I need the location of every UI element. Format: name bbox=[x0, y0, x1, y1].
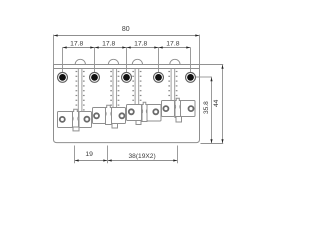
saddle 3 spool bbox=[142, 102, 147, 121]
saddle 3 height screw left bbox=[129, 109, 134, 114]
saddle 1 left block bbox=[58, 112, 73, 128]
bridge base plate bbox=[54, 65, 200, 143]
saddle 1 foot bbox=[73, 127, 79, 131]
saddle 2 foot bbox=[112, 124, 118, 129]
intonation screw shaft string 1 bbox=[78, 69, 82, 113]
svg-text:17.8: 17.8 bbox=[134, 41, 147, 48]
dimension 19 extension left bbox=[74, 146, 76, 164]
saddle 1 height screw right bbox=[84, 117, 89, 122]
saddle 2 left block bbox=[93, 108, 106, 124]
dimension 44 line bbox=[221, 65, 223, 144]
dimension 80 label bbox=[122, 26, 130, 33]
mounting hole 3 bbox=[122, 72, 132, 82]
spring coils string 1 bbox=[76, 71, 85, 111]
svg-text:17.8: 17.8 bbox=[102, 41, 115, 48]
saddle 4 height screw left bbox=[163, 106, 168, 111]
dimension 19 and 38 line bbox=[75, 159, 178, 161]
dimension 17.8 label 2 bbox=[102, 41, 115, 48]
dimension 17.8 label 3 bbox=[134, 41, 147, 48]
screw head bump 1 bbox=[75, 59, 85, 64]
intonation screw shaft string 4 bbox=[171, 69, 175, 102]
saddle 3 height screw right bbox=[153, 109, 158, 114]
extension line hole 1 bbox=[62, 48, 64, 73]
screw head bump 3 bbox=[132, 59, 142, 64]
saddle 3 right block bbox=[147, 105, 161, 122]
spring coils string 4 bbox=[168, 71, 177, 96]
saddle 3 foot bbox=[136, 120, 141, 125]
dimension 38(19X2) label bbox=[129, 153, 156, 160]
mounting hole 2 bbox=[90, 72, 100, 82]
saddle 1 height screw left bbox=[60, 117, 65, 122]
extension line hole 5 bbox=[190, 48, 192, 73]
svg-text:17.8: 17.8 bbox=[70, 41, 83, 48]
screw head bump 2 bbox=[108, 59, 118, 64]
extension line hole 3 bbox=[126, 48, 128, 73]
svg-text:17.8: 17.8 bbox=[166, 41, 179, 48]
saddle 4 foot bbox=[176, 117, 182, 123]
intonation screw shaft string 2 bbox=[113, 69, 117, 109]
dimension 17.8 line bbox=[63, 46, 191, 48]
dimension 44 extension top bbox=[200, 64, 224, 66]
saddle 4 right block bbox=[181, 101, 196, 117]
dimension 44 label bbox=[213, 99, 220, 107]
dimension 35.8 label bbox=[203, 101, 210, 114]
intonation screw shaft string 3 bbox=[135, 69, 139, 106]
spring coils string 2 bbox=[110, 71, 119, 106]
screw head bump 4 bbox=[170, 59, 180, 64]
extension line hole 2 bbox=[94, 48, 96, 73]
svg-text:80: 80 bbox=[122, 26, 130, 33]
dimension 35.8 extension line bbox=[196, 76, 212, 78]
svg-text:44: 44 bbox=[213, 99, 220, 107]
dimension 80 extension right bbox=[199, 35, 201, 65]
mounting hole 4 bbox=[154, 72, 164, 82]
svg-text:38(19X2): 38(19X2) bbox=[129, 153, 156, 160]
dimension 35.8 line bbox=[210, 77, 212, 144]
svg-text:19: 19 bbox=[85, 151, 93, 158]
saddle 4 spool bbox=[175, 98, 181, 117]
saddle 2 right block bbox=[112, 108, 126, 124]
mounting hole 1 bbox=[58, 72, 68, 82]
saddle 1 right block bbox=[79, 112, 92, 128]
dimension 19 label bbox=[85, 151, 93, 158]
dimension 38 extension right bbox=[177, 146, 179, 164]
dimension 80 extension left bbox=[53, 35, 55, 65]
saddle 2 spool bbox=[106, 105, 112, 124]
saddle 2 height screw left bbox=[94, 113, 99, 118]
dimension 80 line bbox=[54, 34, 200, 36]
dimension 17.8 label 1 bbox=[70, 41, 83, 48]
mounting hole 5 bbox=[186, 72, 196, 82]
saddle 2 height screw right bbox=[119, 113, 124, 118]
dimension 44 extension bottom bbox=[201, 143, 224, 145]
back wall bend line bbox=[54, 68, 200, 70]
dimension 19-38 extension middle bbox=[107, 146, 109, 164]
saddle 1 spool bbox=[73, 109, 79, 127]
extension line hole 4 bbox=[158, 48, 160, 73]
saddle 3 left block bbox=[127, 105, 142, 121]
spring coils string 3 bbox=[132, 71, 141, 101]
dimension 17.8 label 4 bbox=[166, 41, 179, 48]
svg-text:35.8: 35.8 bbox=[203, 101, 210, 114]
saddle 4 height screw right bbox=[189, 106, 194, 111]
saddle 4 left block bbox=[162, 101, 175, 117]
